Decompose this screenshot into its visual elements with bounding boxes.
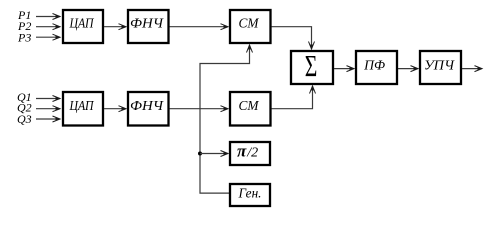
svg-text:ЦАП: ЦАП: [69, 99, 95, 114]
block DAC1 (ЦАП): [63, 10, 103, 43]
wire input Q3 arrow: [36, 118, 60, 120]
block LPF2 (ФНЧ): [128, 92, 169, 126]
block summer (Σ): [291, 48, 333, 84]
block IF amplifier (УПЧ): [420, 51, 461, 84]
block mixer2 (СМ): [230, 92, 271, 126]
svg-text:УПЧ: УПЧ: [424, 59, 455, 74]
svg-text:ПФ: ПФ: [363, 59, 385, 74]
wire mixer1 output to summer top: [272, 27, 312, 49]
wire DAC1 to LPF1: [104, 26, 126, 28]
svg-text:СМ: СМ: [239, 99, 260, 114]
wire input P1 arrow: [36, 16, 60, 18]
wire IF amp output: [462, 68, 482, 70]
wire DAC2 to LPF2: [104, 108, 126, 110]
svg-text:ЦАП: ЦАП: [69, 17, 95, 32]
wire generator to mixer1 (left, up, right, up into mixer1 bottom): [200, 46, 250, 194]
block DAC2 (ЦАП): [63, 92, 103, 126]
svg-text:ФНЧ: ФНЧ: [130, 17, 164, 32]
svg-text:Q3: Q3: [17, 112, 32, 126]
wire LPF2 to mixer2: [170, 108, 228, 110]
wire BPF to IF amp: [398, 68, 418, 70]
wire input Q2 arrow: [36, 108, 60, 110]
block BPF (ПФ): [356, 51, 397, 84]
wire summer to BPF: [334, 68, 354, 70]
wire junction to phase shifter: [200, 153, 228, 155]
block generator (Ген.): [230, 184, 270, 206]
block mixer1 (СМ): [230, 10, 271, 43]
svg-text:Σ: Σ: [305, 48, 318, 83]
svg-text:P3: P3: [17, 31, 31, 45]
svg-text:СМ: СМ: [239, 17, 260, 32]
wire input P2 arrow: [36, 26, 60, 28]
svg-text:ФНЧ: ФНЧ: [130, 99, 164, 114]
wire LPF1 to mixer1: [170, 26, 228, 28]
node junction dot on generator line: [198, 152, 202, 156]
block LPF1 (ФНЧ): [128, 10, 169, 43]
svg-text:Ген.: Ген.: [238, 187, 262, 202]
svg-text:π: π: [237, 142, 247, 161]
wire input Q1 arrow: [36, 98, 60, 100]
svg-text:/2: /2: [246, 146, 258, 161]
block phase shifter (π/2): [230, 142, 270, 166]
wire mixer2 output to summer bottom: [272, 87, 313, 109]
wire input P3 arrow: [36, 36, 60, 38]
